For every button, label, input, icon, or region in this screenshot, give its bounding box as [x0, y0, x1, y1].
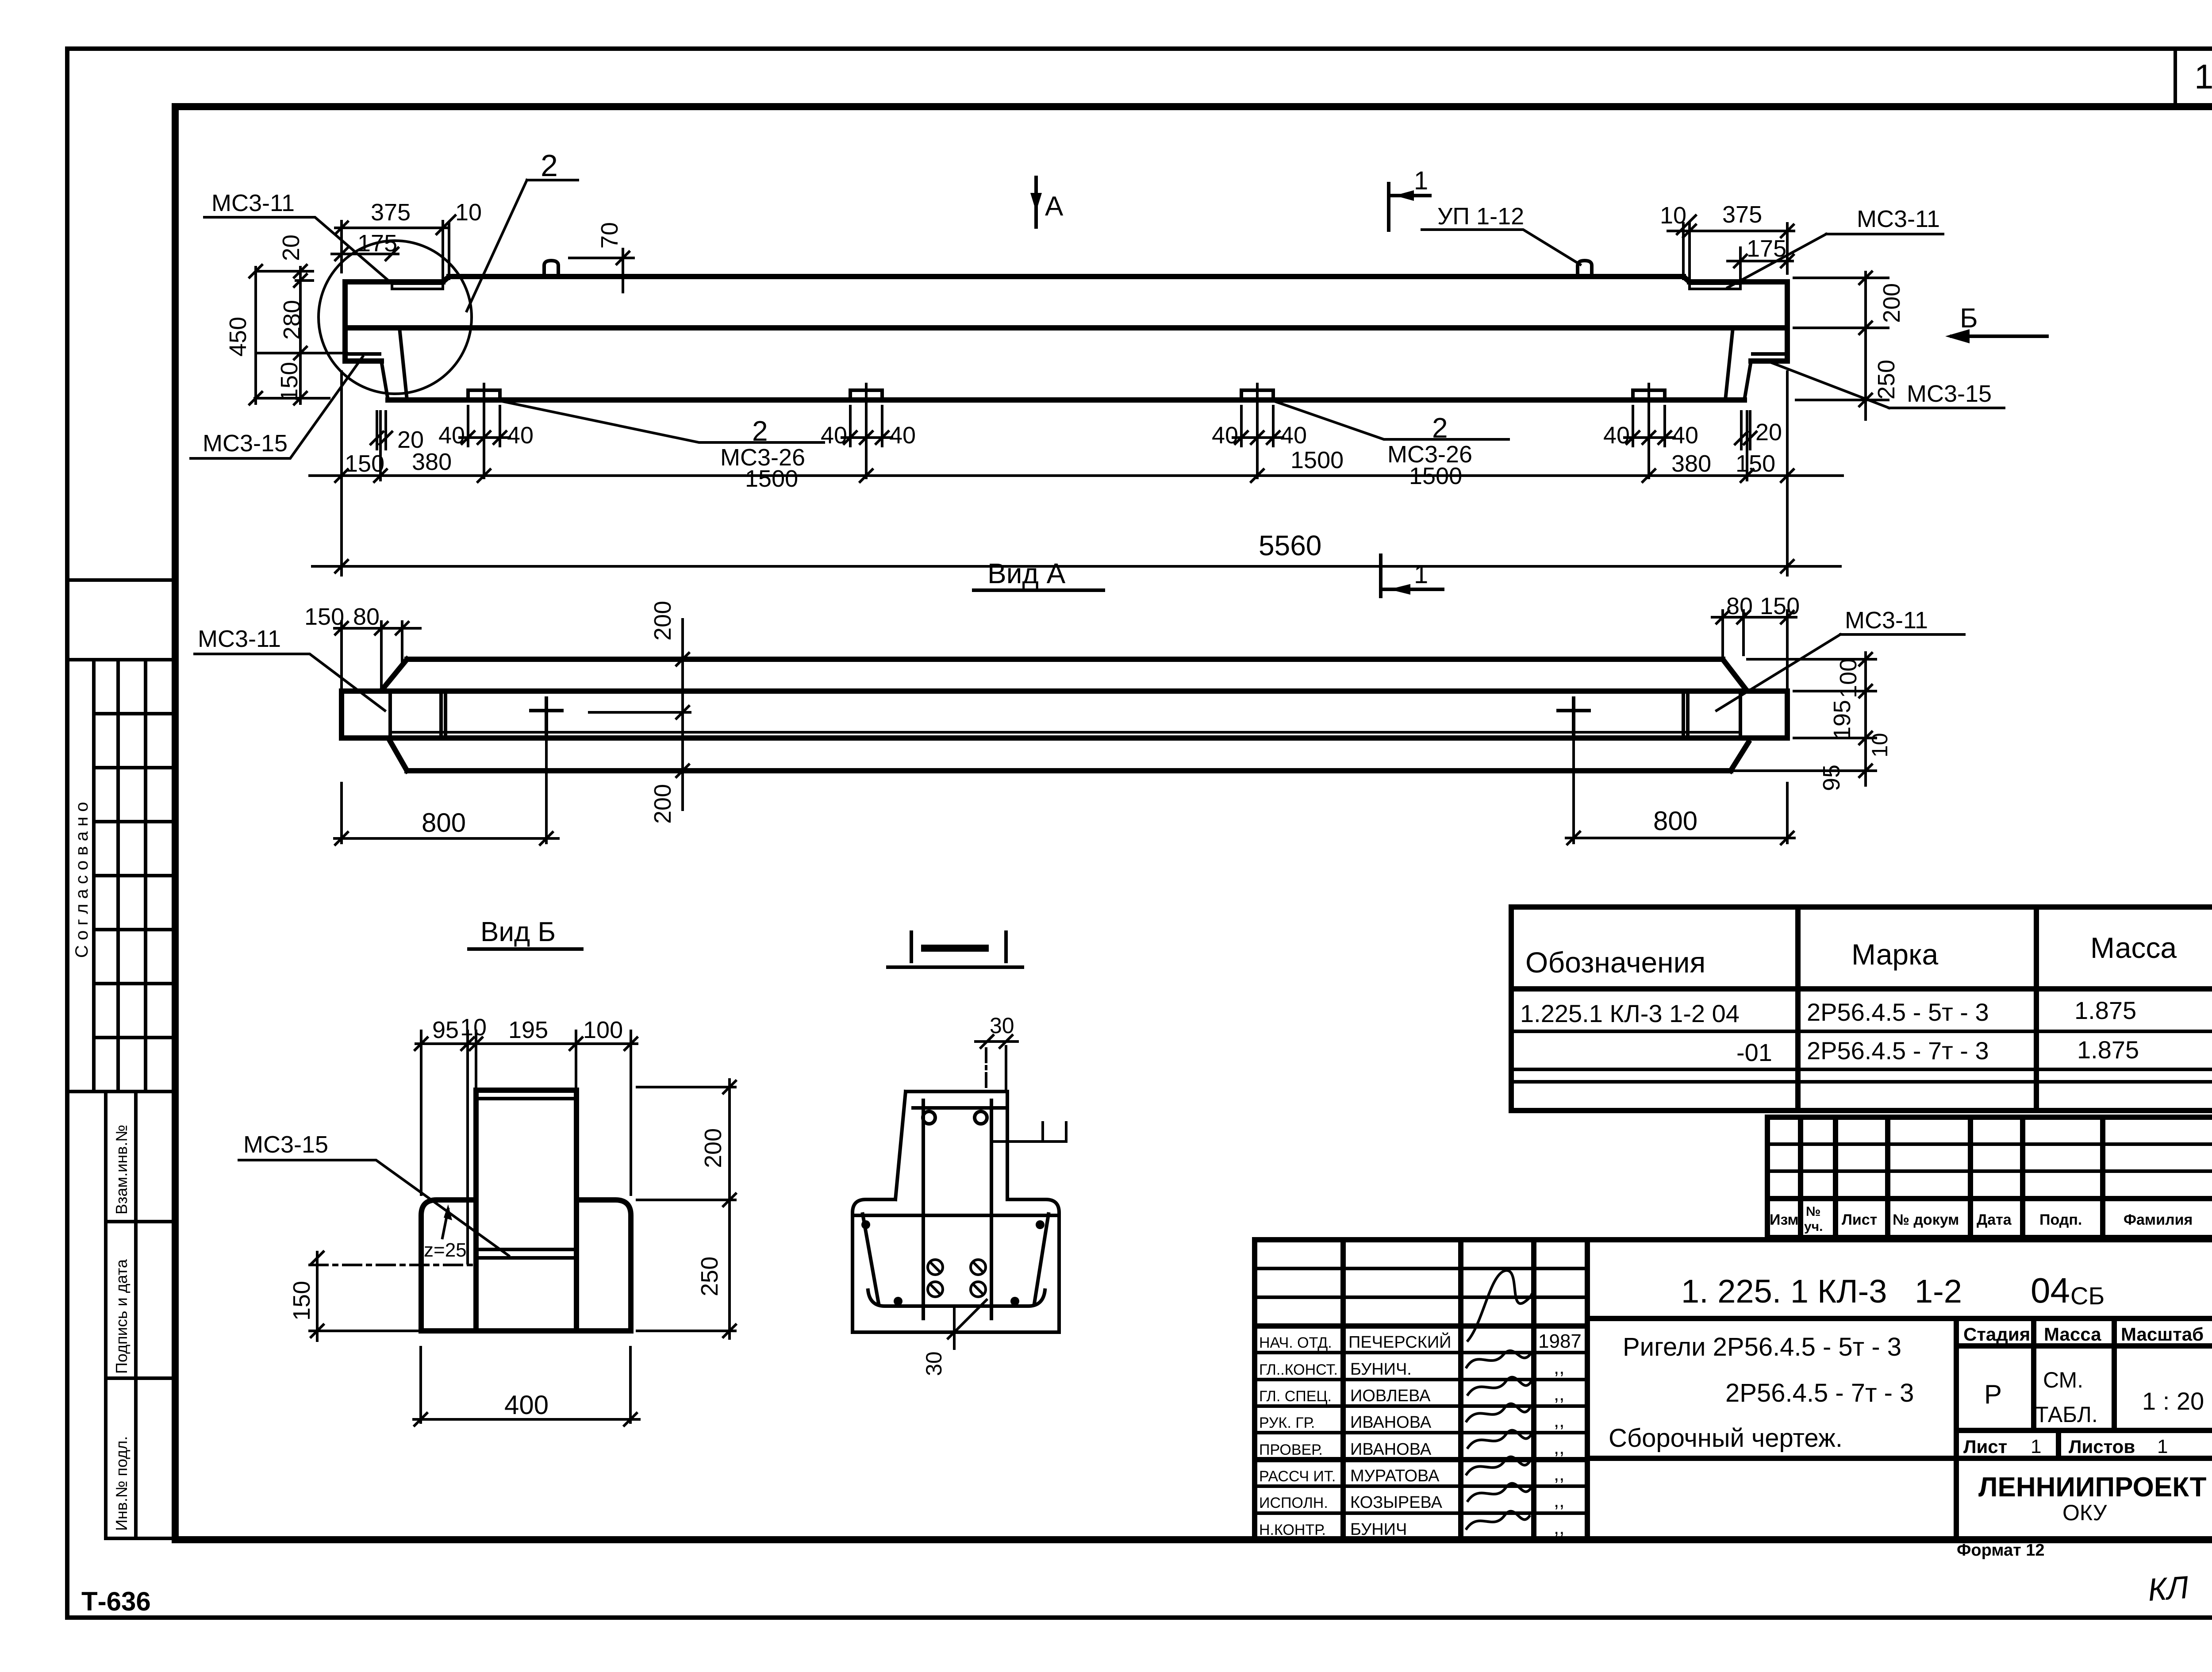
- svg-text:100: 100: [583, 1017, 623, 1043]
- dims 40/40 at tab 4: [1603, 384, 1698, 478]
- plan dims 80/150 right: [1712, 593, 1800, 688]
- label MC3-15 with leader (view B): [239, 1131, 509, 1256]
- svg-text:100: 100: [1835, 658, 1862, 698]
- dims 40/40 at tab 2: [821, 384, 916, 478]
- designation table (Oboznacheniya/Marka/Massa): [1511, 907, 2212, 1111]
- svg-text:375: 375: [1722, 201, 1762, 228]
- label MC3-11 plan left with leader: [195, 626, 385, 711]
- svg-text:Изм: Изм: [1770, 1211, 1799, 1228]
- dim 375 right: [1668, 201, 1794, 273]
- svg-text:ЛЕННИИПРОЕКТ: ЛЕННИИПРОЕКТ: [1978, 1472, 2207, 1503]
- label MC3-15 left with leader: [191, 357, 363, 458]
- svg-text:200: 200: [649, 601, 676, 641]
- revision table (Izm/List/N dokum/Data/Podp/Familiya): [1767, 1117, 2212, 1238]
- dim 175 left: [332, 230, 398, 260]
- plan dim 800 right: [1566, 734, 1794, 844]
- dapped end chamfer lines left: [381, 328, 407, 400]
- svg-text:уч.: уч.: [1804, 1219, 1823, 1234]
- left column strip: top empty box: [67, 580, 175, 660]
- svg-text:40: 40: [507, 422, 534, 449]
- svg-text:40: 40: [438, 422, 465, 449]
- svg-text:ИСПОЛН.: ИСПОЛН.: [1259, 1495, 1328, 1511]
- label MC3-11 right with leader: [1728, 206, 1943, 288]
- title block main designation text: [1681, 1271, 2104, 1310]
- svg-text:ОКУ: ОКУ: [2062, 1500, 2107, 1525]
- svg-text:БУНИЧ: БУНИЧ: [1350, 1520, 1407, 1539]
- dim 70 at loop: [569, 222, 634, 292]
- svg-text:250: 250: [696, 1257, 723, 1296]
- svg-text:ИВАНОВА: ИВАНОВА: [1350, 1413, 1432, 1432]
- signatures (handwritten squiggles): [1467, 1271, 1532, 1529]
- svg-text:Масса: Масса: [2044, 1324, 2101, 1345]
- svg-text:Инв.№ подл.: Инв.№ подл.: [112, 1436, 131, 1531]
- svg-text:200: 200: [649, 784, 676, 824]
- svg-text:Взам.инв.№: Взам.инв.№: [112, 1125, 131, 1215]
- title block stadija/massa/masshtab: [1963, 1324, 2207, 1525]
- svg-text:2Р56.4.5 - 7т - 3: 2Р56.4.5 - 7т - 3: [1807, 1037, 1989, 1065]
- svg-text:80: 80: [1726, 593, 1753, 619]
- svg-text:ТАБЛ.: ТАБЛ.: [2035, 1402, 2098, 1427]
- svg-text:Лист: Лист: [1842, 1211, 1877, 1228]
- plan dim 800 left: [334, 726, 558, 845]
- svg-text:КОЗЫРЕВА: КОЗЫРЕВА: [1350, 1493, 1443, 1512]
- note z=25 with arrow: [424, 1204, 467, 1261]
- plan: plate edge verticals right: [1683, 691, 1740, 738]
- svg-text:800: 800: [422, 808, 466, 838]
- svg-text:70: 70: [596, 222, 623, 249]
- lifting loop UP1-12 right: [1578, 261, 1592, 277]
- svg-text:10: 10: [1660, 202, 1686, 229]
- svg-text:1: 1: [2031, 1436, 2041, 1457]
- svg-text:КЛ: КЛ: [2147, 1570, 2190, 1608]
- inner drawing frame: [175, 107, 2212, 1540]
- svg-text:Подпись и дата: Подпись и дата: [112, 1259, 131, 1374]
- svg-text:16: 16: [2194, 57, 2212, 96]
- svg-text:150: 150: [276, 362, 303, 402]
- plan: centre leader line to 200 dim: [589, 711, 690, 714]
- signature table roles: [1259, 1334, 1338, 1538]
- section: bottom stirrup: [868, 1290, 1045, 1306]
- label 2 / MC3-26 right with leader: [1273, 401, 1509, 489]
- svg-text:СМ.: СМ.: [2043, 1368, 2083, 1392]
- svg-text:Стадия: Стадия: [1963, 1324, 2030, 1345]
- title Vid B: [469, 917, 582, 949]
- title Vid A: [974, 557, 1103, 590]
- svg-text:1: 1: [1414, 560, 1428, 589]
- plan: plate edge verticals left: [390, 691, 445, 738]
- dim chain 20/280/150 left: [255, 234, 347, 404]
- svg-text:Б: Б: [1960, 303, 1978, 334]
- view B dim 400: [414, 1347, 639, 1426]
- svg-text:ИОВЛЕВА: ИОВЛЕВА: [1350, 1387, 1431, 1405]
- svg-text:10: 10: [455, 199, 482, 226]
- svg-text:А: А: [1045, 191, 1064, 222]
- plan dim chain 100/195/10/95 right: [1734, 653, 1892, 791]
- svg-text:Подп.: Подп.: [2039, 1211, 2082, 1228]
- svg-text:250: 250: [1873, 360, 1900, 400]
- label MC3-11 left with leader: [204, 190, 392, 284]
- svg-text:,,: ,,: [1554, 1437, 1564, 1458]
- svg-text:СБ: СБ: [2070, 1282, 2104, 1310]
- svg-text:РАССЧ ИТ.: РАССЧ ИТ.: [1259, 1468, 1336, 1485]
- svg-text:195: 195: [508, 1017, 548, 1043]
- label MC3-15 right with leader: [1772, 363, 2004, 408]
- svg-text:,,: ,,: [1554, 1410, 1564, 1431]
- svg-text:Р: Р: [1984, 1380, 2002, 1409]
- svg-text:40: 40: [1280, 422, 1307, 449]
- beam end plate MC3-11 left (inset, elevation): [392, 284, 443, 289]
- view B: centreline dash-dot: [310, 1264, 472, 1266]
- title block outline: [1255, 1240, 2212, 1540]
- svg-text:№: №: [1806, 1204, 1820, 1219]
- left strip: Vzam inv box: [106, 1092, 175, 1538]
- section: dim 30 top: [975, 1013, 1018, 1091]
- plan: lifting point cross left: [531, 698, 562, 735]
- dimension 5560 overall: [312, 530, 1840, 573]
- svg-text:375: 375: [371, 199, 411, 226]
- section: corner dots: [894, 1297, 902, 1306]
- svg-text:200: 200: [1878, 283, 1905, 323]
- svg-text:280: 280: [279, 300, 305, 340]
- svg-text:20: 20: [1755, 419, 1782, 446]
- svg-text:Дата: Дата: [1977, 1211, 2012, 1228]
- svg-text:Сборочный чертеж.: Сборочный чертеж.: [1609, 1424, 1843, 1453]
- svg-text:ГЛ..КОНСТ.: ГЛ..КОНСТ.: [1259, 1361, 1338, 1378]
- svg-text:-01: -01: [1736, 1038, 1772, 1066]
- svg-text:10: 10: [460, 1014, 487, 1041]
- svg-text:150: 150: [1736, 450, 1775, 477]
- label UP1-12 with leader: [1422, 203, 1580, 265]
- svg-text:Листов: Листов: [2069, 1436, 2135, 1457]
- label MC3-11 plan right with leader: [1717, 607, 1964, 711]
- lifting loop UP1-12 left: [544, 261, 558, 277]
- svg-text:Обозначения: Обозначения: [1525, 946, 1705, 979]
- dim 375 left: [335, 199, 449, 273]
- svg-text:380: 380: [1671, 450, 1711, 477]
- svg-text:1: 1: [2157, 1436, 2168, 1457]
- svg-text:1987: 1987: [1538, 1330, 1582, 1352]
- section mark 1 top: [1389, 166, 1430, 230]
- plan: lifting point cross right: [1558, 698, 1589, 735]
- dim 10 left (step): [437, 199, 482, 279]
- svg-text:1500: 1500: [745, 465, 798, 492]
- svg-text:С о г л а с о в а н о: С о г л а с о в а н о: [72, 802, 92, 958]
- svg-text:40: 40: [821, 422, 847, 449]
- svg-text:ИВАНОВА: ИВАНОВА: [1350, 1440, 1432, 1459]
- dim 10 right (step): [1660, 202, 1696, 279]
- svg-text:400: 400: [504, 1390, 549, 1420]
- svg-text:Т-636: Т-636: [81, 1587, 151, 1616]
- signature table dates: [1538, 1330, 1582, 1538]
- svg-text:95: 95: [1818, 765, 1845, 791]
- svg-text:1500: 1500: [1290, 447, 1344, 473]
- plan view (Vid A): outline: [342, 659, 1787, 771]
- svg-text:2: 2: [541, 148, 558, 183]
- svg-text:Формат 12: Формат 12: [1957, 1541, 2045, 1560]
- svg-text:1.875: 1.875: [2077, 1036, 2139, 1064]
- section: console bar end dots: [861, 1220, 870, 1229]
- detail circle 2: [319, 241, 472, 394]
- dapped end chamfer lines right: [1725, 328, 1751, 400]
- svg-text:2Р56.4.5 - 7т - 3: 2Р56.4.5 - 7т - 3: [1725, 1379, 1914, 1407]
- svg-text:195: 195: [1829, 700, 1855, 740]
- svg-text:Вид Б: Вид Б: [480, 917, 556, 947]
- svg-text:10: 10: [1867, 733, 1892, 757]
- view B arrow: [1945, 303, 2047, 343]
- svg-text:1.225.1 КЛ-3 1-2 04: 1.225.1 КЛ-3 1-2 04: [1520, 999, 1740, 1027]
- detail label 2 with leader: [467, 148, 578, 311]
- svg-text:,,: ,,: [1554, 1490, 1564, 1511]
- svg-text:МС3-11: МС3-11: [1857, 206, 1940, 232]
- plan dims 150/80 left: [304, 603, 420, 688]
- svg-text:2: 2: [1432, 412, 1448, 444]
- svg-text:150: 150: [304, 603, 344, 630]
- svg-text:150: 150: [345, 450, 384, 477]
- view B: web outline: [476, 1090, 576, 1331]
- svg-text:2: 2: [752, 415, 768, 447]
- svg-text:40: 40: [1672, 422, 1698, 449]
- svg-text:80: 80: [353, 603, 380, 630]
- section: dim 30 bottom: [922, 1300, 987, 1376]
- embedded plates MC3-26 (tabs on bottom): [468, 390, 1665, 400]
- svg-text:1.875: 1.875: [2074, 996, 2136, 1024]
- title section 1-1: [888, 932, 1022, 967]
- svg-text:200: 200: [700, 1128, 726, 1168]
- section: stirrup legs: [923, 1100, 991, 1318]
- svg-text:04: 04: [2031, 1271, 2070, 1310]
- signature table names: [1348, 1332, 1451, 1539]
- beam elevation: main outline: [345, 277, 1787, 400]
- svg-text:ГЛ. СПЕЦ.: ГЛ. СПЕЦ.: [1259, 1388, 1332, 1405]
- svg-text:ПЕЧЕРСКИЙ: ПЕЧЕРСКИЙ: [1348, 1332, 1451, 1352]
- dims 40/40 at tab 3: [1212, 384, 1307, 478]
- svg-text:МС3-15: МС3-15: [1907, 381, 1992, 407]
- svg-text:,,: ,,: [1554, 1463, 1564, 1485]
- bearing plate MC3-15 right (elevation): [1753, 354, 1786, 360]
- svg-text:УП 1-12: УП 1-12: [1437, 203, 1524, 230]
- dim 450 left: [225, 265, 262, 404]
- svg-text:Ригели 2Р56.4.5 - 5т - 3: Ригели 2Р56.4.5 - 5т - 3: [1623, 1333, 1901, 1361]
- svg-text:40: 40: [1603, 422, 1630, 449]
- section: top rebar: [913, 1106, 1004, 1110]
- dim chain 200/250 right: [1794, 272, 1905, 419]
- svg-text:НАЧ. ОТД.: НАЧ. ОТД.: [1259, 1334, 1332, 1351]
- svg-text:Вид А: Вид А: [987, 557, 1066, 589]
- section mark 1 below plan: [1381, 555, 1443, 596]
- svg-text:МС3-15: МС3-15: [203, 430, 288, 457]
- view B dim 150 left: [288, 1252, 420, 1341]
- dim 175 right: [1728, 235, 1793, 279]
- section: inclined stirrup sides: [863, 1214, 1048, 1303]
- svg-text:175: 175: [357, 230, 397, 257]
- svg-text:Масса: Масса: [2090, 931, 2177, 964]
- svg-text:БУНИЧ.: БУНИЧ.: [1350, 1360, 1412, 1379]
- svg-text:2Р56.4.5 - 5т - 3: 2Р56.4.5 - 5т - 3: [1807, 998, 1989, 1026]
- svg-text:,,: ,,: [1554, 1383, 1564, 1405]
- svg-text:Н.КОНТР.: Н.КОНТР.: [1259, 1522, 1326, 1538]
- svg-text:5560: 5560: [1259, 530, 1321, 561]
- section: bottom bars (4 circles): [928, 1260, 986, 1297]
- svg-text:380: 380: [412, 449, 452, 475]
- svg-text:МС3-15: МС3-15: [243, 1131, 328, 1158]
- svg-text:20: 20: [278, 234, 304, 261]
- view B dims 95/10/195/100: [415, 1014, 637, 1263]
- svg-text:95: 95: [432, 1017, 459, 1043]
- svg-text:800: 800: [1653, 806, 1697, 836]
- svg-text:1: 1: [1414, 166, 1428, 195]
- svg-text:Лист: Лист: [1963, 1436, 2007, 1457]
- section 1-1: concrete outline: [853, 1092, 1059, 1332]
- dimension row 150/380/1500: [310, 372, 1843, 575]
- dim 20 bottom left: [371, 411, 424, 453]
- svg-text:Марка: Марка: [1851, 938, 1938, 971]
- svg-text:40: 40: [889, 422, 916, 449]
- svg-text:МУРАТОВА: МУРАТОВА: [1350, 1467, 1440, 1485]
- svg-text:1. 225. 1: 1. 225. 1: [1681, 1273, 1809, 1310]
- svg-text:КЛ-3: КЛ-3: [1817, 1273, 1887, 1310]
- dims 40/40 at tab 1: [438, 384, 534, 478]
- svg-text:№ докум: № докум: [1893, 1211, 1959, 1228]
- svg-text:Фамилия: Фамилия: [2124, 1211, 2193, 1228]
- svg-text:30: 30: [922, 1351, 946, 1376]
- svg-text:МС3-11: МС3-11: [211, 190, 295, 216]
- view A arrow: [1030, 177, 1064, 227]
- svg-text:1-2: 1-2: [1915, 1273, 1962, 1310]
- svg-text:1 : 20: 1 : 20: [2142, 1387, 2204, 1415]
- section: bar mark 1 leader: [993, 1122, 1066, 1142]
- svg-text:МС3-11: МС3-11: [198, 626, 281, 652]
- section: top bar circles: [923, 1111, 935, 1124]
- beam end plate MC3-11 right (inset, elevation): [1690, 284, 1740, 289]
- view B: console outline with rounded corners: [421, 1200, 631, 1331]
- svg-text:Масштаб: Масштаб: [2121, 1324, 2204, 1345]
- svg-text:150: 150: [1760, 593, 1800, 619]
- svg-text:ПРОВЕР.: ПРОВЕР.: [1259, 1441, 1323, 1458]
- title block description: [1609, 1333, 1914, 1453]
- section: console rebar: [856, 1214, 1056, 1217]
- view B dims 200/250 right: [637, 1080, 736, 1338]
- svg-text:z=25: z=25: [424, 1239, 467, 1261]
- svg-text:,,: ,,: [1554, 1517, 1564, 1538]
- left strip: Soglasovano section grid: [67, 660, 175, 1092]
- svg-text:150: 150: [288, 1281, 315, 1321]
- label 2 / MC3-26 left with leader: [500, 401, 824, 492]
- dim 20 bottom right: [1735, 411, 1782, 449]
- svg-text:450: 450: [225, 317, 251, 357]
- bearing plate MC3-15 left (elevation): [347, 354, 380, 360]
- sheet number box 16: [2175, 49, 2212, 107]
- svg-text:РУК. ГР.: РУК. ГР.: [1259, 1414, 1315, 1431]
- plan dim 200 upper/lower left: [649, 601, 689, 824]
- svg-text:МС3-11: МС3-11: [1845, 607, 1928, 634]
- view B: plate MC3-15 seat: [476, 1249, 576, 1258]
- svg-text:,,: ,,: [1554, 1357, 1564, 1378]
- svg-text:40: 40: [1212, 422, 1238, 449]
